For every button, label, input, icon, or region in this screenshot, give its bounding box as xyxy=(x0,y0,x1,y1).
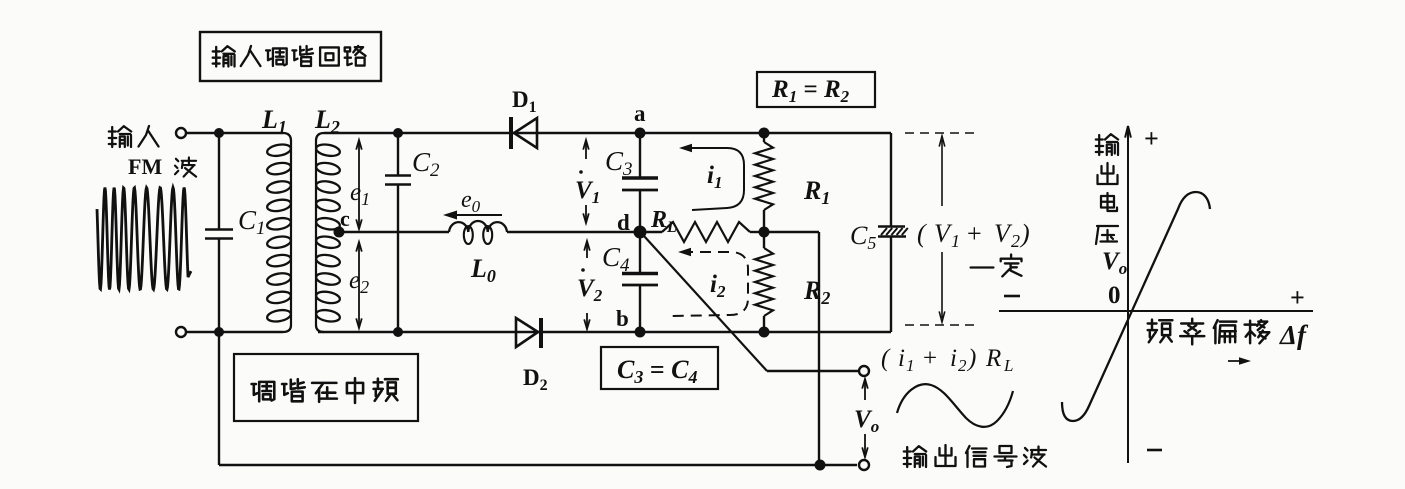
callout box C3=C4 xyxy=(601,347,718,389)
wire vertical to output xyxy=(818,232,820,465)
svg-text:+: + xyxy=(1290,283,1305,312)
arrow e2 xyxy=(356,242,362,328)
label i2 xyxy=(710,271,726,301)
label RL xyxy=(650,207,677,236)
graph zero xyxy=(1108,282,1121,309)
wire C4 vertical xyxy=(639,232,641,332)
label output signal wave xyxy=(904,445,1046,467)
svg-text:C3 = C4: C3 = C4 xyxy=(617,355,698,387)
junction input bottom xyxy=(214,327,224,337)
label L1 xyxy=(261,105,287,137)
capacitor C2 xyxy=(385,176,411,185)
arrow V2 down xyxy=(584,313,590,329)
graph ylabel Vo xyxy=(1102,248,1127,278)
capacitor C4 xyxy=(622,274,658,286)
svg-text:c: c xyxy=(340,206,350,231)
graph small arrow xyxy=(1228,357,1251,365)
wire diagonal d to output xyxy=(644,236,767,371)
capacitor C3 xyxy=(622,178,658,190)
arrow V1 up xyxy=(583,140,589,159)
arrow V2 up xyxy=(584,241,590,258)
label e0 xyxy=(461,187,481,216)
callout box R1=R2 xyxy=(757,72,875,107)
wire mid rail right xyxy=(507,231,640,233)
node b xyxy=(616,306,646,338)
diode D2 xyxy=(516,318,541,348)
svg-text:d: d xyxy=(617,210,630,235)
ground rail xyxy=(219,332,857,465)
svg-text:b: b xyxy=(616,306,629,331)
output terminal bottom xyxy=(859,460,869,470)
junction ground xyxy=(815,460,826,471)
graph xlabel delta-f xyxy=(1279,320,1309,350)
label L2 xyxy=(314,105,340,137)
wire L1 bottom corner xyxy=(283,325,291,332)
graph minus left xyxy=(1004,295,1020,298)
output terminal top xyxy=(859,366,869,376)
graph xlabel pinlu-pianyi xyxy=(1148,319,1270,345)
input terminal top xyxy=(176,128,186,138)
dashed tick top xyxy=(905,132,975,134)
graph ylabel shuchu-dianya xyxy=(1096,134,1118,244)
junction R mid xyxy=(759,227,770,238)
svg-text:a: a xyxy=(634,101,646,126)
inductor L2 xyxy=(315,141,341,325)
resistor R2 xyxy=(755,232,773,332)
node d xyxy=(617,210,647,239)
label C2 xyxy=(412,147,440,181)
label e1 xyxy=(350,179,370,209)
svg-text:Δf: Δf xyxy=(1279,320,1309,350)
wire C2 vertical xyxy=(397,133,399,332)
wire mid to vertical xyxy=(764,231,819,233)
label C3 xyxy=(605,146,633,180)
graph y-axis xyxy=(1125,126,1131,463)
graph plus right xyxy=(1290,283,1305,312)
junction R2 bottom xyxy=(759,327,770,338)
label V1 xyxy=(575,170,600,207)
callout box input tuned circuit xyxy=(200,32,381,81)
resistor R1 xyxy=(755,133,773,232)
wire bottom rail xyxy=(318,331,891,333)
arrow e1 xyxy=(356,140,362,229)
label yiding (constant) xyxy=(971,255,1022,277)
junction C2 top xyxy=(393,128,403,138)
wire L2 bottom corner xyxy=(316,325,324,332)
current loop i2 xyxy=(672,248,748,316)
graph minus bottom xyxy=(1147,449,1162,452)
label (V1+V2) xyxy=(917,219,1030,251)
resistor RL xyxy=(640,222,764,242)
label R1 xyxy=(803,176,830,208)
diode D1 xyxy=(511,117,537,149)
arrow V1 down xyxy=(583,205,589,223)
label V2 xyxy=(577,268,603,305)
label L0 xyxy=(470,254,496,286)
output signal waveform xyxy=(897,384,1013,427)
label R2 xyxy=(803,276,830,308)
arrow V1+V2 measure xyxy=(939,136,945,322)
label FM bo (FM wave) xyxy=(128,154,196,179)
label D1 xyxy=(512,87,537,116)
callout box tuned-at-IF xyxy=(234,354,418,421)
label shuru (input) xyxy=(109,126,159,147)
wire input top xyxy=(187,132,283,134)
svg-text:FM: FM xyxy=(128,154,162,179)
arrow Vo down xyxy=(862,434,868,457)
graph plus top xyxy=(1144,124,1159,153)
junction R1 top xyxy=(759,128,770,139)
svg-text:R1 = R2: R1 = R2 xyxy=(771,76,850,106)
wire mid rail left xyxy=(339,231,449,233)
input FM waveform xyxy=(97,188,191,290)
junction C2 bottom xyxy=(393,327,403,337)
graph S-curve xyxy=(1062,192,1210,421)
label D2 xyxy=(523,365,548,394)
wire C1 branch vertical xyxy=(218,133,220,332)
inductor L0 xyxy=(449,221,507,244)
svg-text:+: + xyxy=(1144,124,1159,153)
wire top rail xyxy=(324,132,891,134)
graph x-axis xyxy=(999,310,1313,312)
label i1 xyxy=(707,162,722,192)
junction input top xyxy=(214,128,224,138)
wire input bottom xyxy=(187,331,283,333)
label C1 xyxy=(238,205,266,239)
label C5 xyxy=(850,221,876,253)
capacitor C1 xyxy=(205,230,233,239)
wire right frame xyxy=(890,133,892,332)
wire L2 top corner xyxy=(316,133,324,141)
wire output top xyxy=(767,370,858,372)
wire L1 top corner xyxy=(283,133,291,141)
arrow Vo up xyxy=(862,379,868,400)
label Vo xyxy=(854,406,879,436)
input terminal bottom xyxy=(176,327,186,337)
label e2 xyxy=(349,267,369,297)
capacitor C5 xyxy=(878,227,908,237)
inductor L1 xyxy=(266,141,292,325)
svg-text:0: 0 xyxy=(1108,282,1121,309)
label (i1+i2)RL xyxy=(881,345,1013,375)
node c xyxy=(334,206,351,238)
node a xyxy=(634,101,646,139)
arrow e0 xyxy=(443,211,502,220)
dashed tick bottom xyxy=(905,324,975,326)
label C4 xyxy=(602,242,630,276)
wire C3 vertical xyxy=(639,133,641,232)
current loop i1 xyxy=(679,144,744,210)
